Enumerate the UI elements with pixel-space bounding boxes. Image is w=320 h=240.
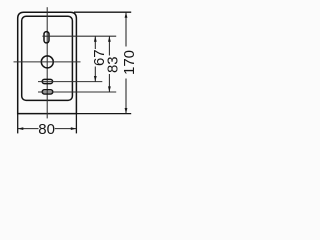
top keyhole slot xyxy=(44,32,49,43)
top extension line for 170 (top edge extended) xyxy=(74,11,131,13)
circle horizontal crosshair xyxy=(14,61,81,63)
outer plate outline xyxy=(18,12,77,113)
dimension 170: arrows xyxy=(125,12,128,18)
dimension 83: line xyxy=(108,36,110,55)
bottom slot 2 xyxy=(42,90,53,94)
slot 1 crosshair / extension (bottom ref for 67) xyxy=(38,81,102,83)
bottom slot 1 xyxy=(42,79,52,83)
dimension 80: arrows xyxy=(18,127,24,130)
svg-text:170: 170 xyxy=(121,50,138,75)
dimension 83: arrows xyxy=(108,36,111,42)
inner plate outline xyxy=(22,16,73,100)
right extension line for 80 xyxy=(75,114,77,134)
bottom extension line for 170 (bottom edge extended) xyxy=(76,113,131,115)
dimension 67: arrows xyxy=(94,36,97,42)
dimension 80: line xyxy=(18,128,39,130)
left extension line for 80 xyxy=(17,114,19,134)
top slot crosshair / extension line (top ref for 67 & 83) xyxy=(42,35,116,37)
vertical centerline xyxy=(46,7,48,118)
svg-text:83: 83 xyxy=(105,56,122,73)
center circle xyxy=(41,56,53,68)
dimension 67: line xyxy=(94,36,96,49)
slot 2 crosshair / extension (bottom ref for 83) xyxy=(38,91,116,93)
dimension 170: line xyxy=(125,12,127,46)
svg-text:80: 80 xyxy=(38,121,55,138)
